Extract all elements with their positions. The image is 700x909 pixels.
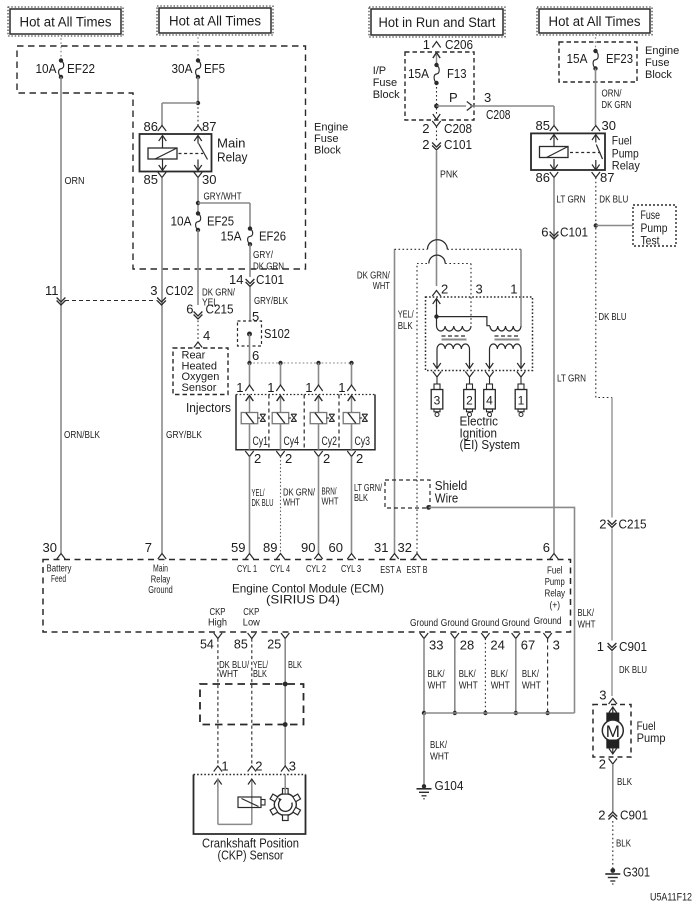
svg-text:WHT: WHT [373, 280, 390, 292]
svg-text:3: 3 [599, 688, 606, 703]
svg-text:GRY/: GRY/ [253, 249, 273, 261]
svg-text:14: 14 [229, 272, 243, 287]
svg-text:2: 2 [285, 451, 292, 466]
svg-text:P: P [449, 90, 458, 105]
svg-text:Test: Test [641, 236, 661, 248]
svg-text:LT GRN: LT GRN [557, 373, 586, 385]
svg-text:25: 25 [267, 638, 281, 652]
svg-text:3: 3 [289, 759, 296, 774]
svg-text:Block: Block [373, 89, 400, 101]
svg-text:4: 4 [203, 328, 210, 343]
svg-text:1: 1 [305, 380, 312, 395]
svg-text:DK BLU: DK BLU [619, 664, 647, 676]
svg-text:3: 3 [484, 90, 491, 105]
svg-text:3: 3 [553, 638, 560, 653]
svg-text:2: 2 [599, 757, 606, 772]
svg-text:67: 67 [521, 638, 535, 653]
svg-text:Wire: Wire [435, 492, 459, 506]
svg-text:Hot at All Times: Hot at All Times [549, 14, 641, 29]
svg-text:Block: Block [645, 69, 672, 81]
svg-text:Relay: Relay [612, 159, 640, 173]
svg-text:31: 31 [374, 540, 388, 555]
svg-text:2: 2 [255, 759, 262, 774]
svg-text:1: 1 [236, 380, 243, 395]
svg-text:59: 59 [231, 540, 245, 555]
svg-text:15A: 15A [221, 229, 242, 244]
svg-text:1: 1 [267, 380, 274, 395]
svg-text:11: 11 [45, 283, 59, 298]
svg-text:Cy3: Cy3 [355, 434, 371, 448]
svg-text:GRY/BLK: GRY/BLK [254, 295, 288, 307]
svg-text:U5A11F12: U5A11F12 [650, 892, 692, 904]
svg-text:WHT: WHT [219, 668, 238, 680]
svg-text:85: 85 [536, 118, 550, 133]
svg-text:C101: C101 [444, 137, 472, 152]
svg-text:CYL 3: CYL 3 [341, 564, 361, 575]
svg-text:6: 6 [541, 225, 548, 240]
svg-text:WHT: WHT [430, 751, 449, 763]
svg-text:Cy2: Cy2 [322, 434, 338, 448]
svg-text:Ground: Ground [534, 616, 562, 627]
svg-text:3: 3 [150, 283, 157, 298]
svg-text:C102: C102 [166, 283, 194, 298]
svg-text:DK BLU: DK BLU [599, 194, 628, 206]
svg-text:DK GRN: DK GRN [602, 99, 632, 111]
svg-text:24: 24 [490, 638, 504, 653]
svg-text:PNK: PNK [440, 169, 458, 181]
svg-text:F13: F13 [447, 66, 467, 81]
svg-text:ORN: ORN [65, 175, 85, 187]
svg-text:I/P: I/P [373, 65, 386, 77]
svg-text:Pump: Pump [637, 731, 666, 745]
svg-text:2: 2 [422, 137, 429, 152]
svg-text:M: M [606, 722, 620, 741]
svg-text:EF26: EF26 [259, 229, 286, 244]
svg-text:GRY/WHT: GRY/WHT [204, 191, 242, 203]
svg-text:BLK/: BLK/ [428, 668, 445, 680]
svg-text:EF25: EF25 [207, 214, 234, 229]
svg-text:32: 32 [398, 540, 412, 555]
svg-text:1: 1 [518, 394, 525, 408]
svg-text:C206: C206 [445, 37, 473, 52]
svg-text:EF23: EF23 [606, 51, 633, 66]
svg-text:6: 6 [252, 348, 259, 363]
svg-text:ORN/BLK: ORN/BLK [64, 429, 100, 441]
svg-text:S102: S102 [264, 326, 290, 341]
svg-text:30A: 30A [172, 61, 193, 76]
svg-text:4: 4 [486, 394, 493, 408]
svg-text:(EI) System: (EI) System [460, 438, 521, 452]
svg-text:WHT: WHT [578, 619, 596, 631]
svg-text:WHT: WHT [283, 497, 300, 509]
svg-text:C215: C215 [206, 302, 234, 317]
svg-text:BLK/: BLK/ [491, 668, 508, 680]
svg-text:CYL 4: CYL 4 [270, 564, 290, 575]
svg-text:Cy1: Cy1 [253, 434, 269, 448]
svg-text:Block: Block [314, 145, 341, 157]
svg-text:Main: Main [217, 136, 246, 151]
svg-text:Battery: Battery [47, 564, 72, 575]
svg-text:ORN/: ORN/ [602, 88, 622, 100]
svg-text:2: 2 [356, 451, 363, 466]
svg-text:30: 30 [202, 172, 216, 187]
svg-text:WHT: WHT [491, 680, 510, 692]
svg-text:BLK/: BLK/ [522, 668, 539, 680]
svg-text:87: 87 [202, 119, 216, 134]
svg-text:2: 2 [466, 394, 473, 408]
svg-text:86: 86 [536, 170, 550, 185]
svg-text:Fuse: Fuse [641, 210, 661, 222]
svg-text:(+): (+) [550, 601, 561, 612]
svg-text:Relay: Relay [151, 575, 171, 586]
svg-text:15A: 15A [567, 51, 588, 66]
svg-text:BLK/: BLK/ [430, 739, 447, 751]
svg-text:Cy4: Cy4 [284, 434, 300, 448]
svg-text:3: 3 [476, 282, 483, 297]
svg-text:5: 5 [252, 309, 259, 324]
svg-text:GRY/BLK: GRY/BLK [166, 429, 202, 441]
svg-text:7: 7 [145, 540, 152, 555]
svg-text:EST A: EST A [380, 565, 401, 576]
svg-text:Pump: Pump [641, 223, 668, 235]
svg-text:90: 90 [301, 540, 315, 555]
svg-text:Ground: Ground [471, 618, 499, 629]
svg-text:3: 3 [434, 394, 441, 408]
svg-text:(SIRIUS D4): (SIRIUS D4) [266, 593, 340, 607]
svg-text:Fuel: Fuel [547, 566, 563, 577]
svg-text:Fuse: Fuse [314, 133, 338, 145]
svg-text:Ground: Ground [148, 585, 173, 596]
svg-text:Ground: Ground [502, 618, 530, 629]
svg-text:87: 87 [600, 170, 614, 185]
svg-text:DK GRN: DK GRN [253, 261, 284, 273]
svg-text:Ground: Ground [410, 618, 438, 629]
svg-text:C215: C215 [619, 517, 647, 532]
svg-text:2: 2 [441, 282, 448, 297]
svg-text:60: 60 [329, 540, 343, 555]
svg-text:Injectors: Injectors [186, 401, 231, 415]
svg-text:1: 1 [510, 282, 517, 297]
svg-text:BLK: BLK [253, 668, 267, 680]
svg-text:89: 89 [263, 540, 277, 555]
svg-text:Low: Low [243, 618, 261, 629]
svg-text:Engine: Engine [645, 45, 679, 57]
svg-text:(CKP) Sensor: (CKP) Sensor [218, 849, 284, 863]
svg-text:Relay: Relay [545, 589, 566, 600]
svg-text:LT GRN: LT GRN [557, 194, 586, 206]
svg-text:15A: 15A [408, 66, 429, 81]
svg-text:Hot in Run and Start: Hot in Run and Start [379, 14, 496, 30]
svg-text:BLK: BLK [398, 320, 413, 332]
svg-text:WHT: WHT [322, 496, 339, 508]
svg-text:EST B: EST B [407, 565, 428, 576]
svg-text:1: 1 [423, 37, 430, 52]
svg-text:6: 6 [543, 540, 550, 555]
svg-text:EF5: EF5 [204, 61, 225, 76]
svg-text:2: 2 [254, 451, 261, 466]
svg-text:1: 1 [597, 639, 604, 654]
svg-text:33: 33 [429, 638, 443, 653]
svg-text:C208: C208 [486, 107, 511, 122]
svg-text:BLK: BLK [616, 838, 631, 850]
svg-text:Fuel: Fuel [612, 134, 632, 148]
svg-text:2: 2 [599, 517, 606, 532]
svg-text:CYL 1: CYL 1 [237, 564, 257, 575]
svg-text:High: High [208, 618, 227, 629]
svg-text:54: 54 [200, 638, 214, 652]
svg-text:EF22: EF22 [67, 61, 95, 76]
svg-text:Relay: Relay [217, 150, 248, 165]
svg-text:DK BLU: DK BLU [252, 497, 274, 509]
svg-text:Fuse: Fuse [645, 57, 669, 69]
svg-text:WHT: WHT [522, 680, 541, 692]
svg-text:Sensor: Sensor [182, 382, 217, 394]
svg-text:30: 30 [602, 118, 616, 133]
svg-text:C101: C101 [256, 272, 284, 287]
svg-text:Engine: Engine [314, 122, 348, 134]
svg-text:C208: C208 [444, 121, 472, 136]
svg-text:30: 30 [43, 540, 57, 555]
svg-text:BLK/: BLK/ [459, 668, 476, 680]
svg-text:85: 85 [144, 172, 158, 187]
svg-text:G301: G301 [623, 866, 650, 880]
svg-text:DK BLU: DK BLU [599, 311, 627, 323]
svg-text:86: 86 [144, 119, 158, 134]
svg-text:WHT: WHT [459, 680, 478, 692]
svg-text:Feed: Feed [51, 574, 66, 585]
svg-text:6: 6 [186, 302, 193, 317]
svg-text:Pump: Pump [545, 577, 565, 588]
svg-text:10A: 10A [171, 214, 192, 229]
svg-text:85: 85 [234, 638, 248, 652]
svg-text:C901: C901 [619, 639, 647, 654]
svg-text:CYL 2: CYL 2 [306, 564, 326, 575]
svg-text:BLK: BLK [617, 776, 632, 788]
svg-text:1: 1 [338, 380, 345, 395]
svg-text:Hot at All Times: Hot at All Times [169, 13, 261, 28]
svg-text:Ground: Ground [441, 618, 469, 629]
svg-text:Main: Main [153, 564, 168, 575]
svg-text:C101: C101 [560, 225, 588, 240]
svg-text:Fuse: Fuse [373, 77, 397, 89]
svg-text:2: 2 [323, 451, 330, 466]
svg-text:BLK: BLK [354, 492, 368, 504]
svg-text:BLK: BLK [288, 659, 302, 671]
svg-text:CKP: CKP [243, 607, 259, 618]
svg-text:2: 2 [422, 121, 429, 136]
svg-text:CKP: CKP [210, 607, 226, 618]
svg-text:28: 28 [460, 638, 474, 653]
svg-text:2: 2 [598, 808, 605, 823]
svg-text:YEL/: YEL/ [398, 309, 414, 321]
svg-text:BLK/: BLK/ [578, 607, 595, 619]
svg-text:Hot at All Times: Hot at All Times [20, 14, 112, 29]
svg-text:C901: C901 [620, 808, 648, 823]
svg-text:1: 1 [221, 759, 228, 774]
svg-text:10A: 10A [36, 61, 57, 76]
svg-text:WHT: WHT [428, 680, 447, 692]
svg-text:G104: G104 [435, 779, 464, 793]
